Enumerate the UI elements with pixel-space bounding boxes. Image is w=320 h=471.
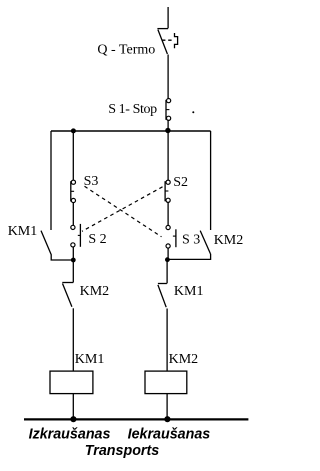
wire: left outer branch	[50, 131, 52, 230]
contact KM2 (NO self-holding)	[200, 231, 210, 254]
contact KM1 (NC interlock)	[158, 284, 167, 308]
wire: S3 to right lower junction	[167, 248, 169, 260]
top bus wire	[51, 130, 211, 132]
svg-text:KM1: KM1	[8, 224, 38, 239]
push button S2 (NC contact, right)	[165, 180, 170, 202]
coil KM2	[145, 371, 187, 394]
svg-text:Transports: Transports	[85, 443, 159, 459]
junction: left branch / KM1 contact	[71, 258, 76, 263]
junction: right branch / KM2 contact	[165, 257, 170, 262]
wire: S2 to left lower junction	[72, 247, 74, 260]
wire: S2 to S3 (right branch)	[167, 203, 169, 226]
wire: junction to KM1 interlock	[166, 260, 168, 284]
svg-text:Q - Termo: Q - Termo	[97, 42, 155, 57]
wire: bus to S3 (left branch)	[72, 131, 74, 180]
wire: KM2 contact to right junction	[168, 254, 211, 260]
junction: bus / left branch	[71, 128, 76, 133]
wire: top feed	[167, 7, 169, 28]
wire: coil KM1 to bottom bus	[72, 394, 74, 419]
svg-text:S2: S2	[173, 175, 188, 190]
wire: breaker to S1	[167, 55, 169, 99]
wire: right outer branch	[210, 131, 212, 230]
bottom bus (Transports line)	[24, 418, 248, 420]
junction: coil KM1 / bottom bus	[70, 416, 76, 422]
wire: KM1 contact to left junction	[51, 254, 73, 260]
junction: coil KM2 / bottom bus	[164, 416, 170, 422]
wire: KM1 interlock to coil KM2	[166, 309, 168, 372]
wire: coil KM2 to bottom bus	[166, 394, 168, 419]
push button S3 (NC contact)	[71, 180, 76, 203]
svg-text:KM2: KM2	[169, 352, 199, 367]
svg-text:Izkraušanas: Izkraušanas	[29, 427, 111, 443]
contact KM2 (NC interlock)	[62, 283, 73, 307]
svg-text:S 2: S 2	[88, 232, 106, 247]
junction: bus / right branch	[165, 128, 170, 133]
coil KM1	[50, 371, 93, 394]
svg-text:S 3: S 3	[182, 232, 200, 247]
push button S1 (NC stop contact)	[166, 99, 171, 121]
circuit breaker Q (thermal)	[157, 29, 177, 54]
wire: S1 to top bus	[167, 120, 169, 131]
svg-text:KM1: KM1	[174, 284, 204, 299]
contact KM1 (NO self-holding)	[41, 231, 51, 255]
svg-text:KM1: KM1	[75, 352, 105, 367]
svg-text:KM2: KM2	[214, 233, 244, 248]
mechanical link S2 (dashed)	[82, 187, 163, 232]
mechanical link S3 (dashed)	[85, 186, 162, 237]
svg-text:KM2: KM2	[80, 284, 110, 299]
wire: bus to S2 (right branch)	[167, 131, 169, 180]
period mark	[192, 111, 194, 113]
push button S3 (NO contact, right)	[166, 225, 176, 248]
wire: KM2 interlock to coil KM1	[72, 308, 74, 371]
wire: S3 to S2 (left branch)	[72, 203, 74, 225]
svg-text:S 1- Stop: S 1- Stop	[108, 102, 157, 117]
push button S2 (NO contact)	[71, 224, 81, 247]
wire: junction to KM2 interlock	[72, 260, 74, 282]
svg-text:Iekraušanas: Iekraušanas	[128, 427, 211, 443]
